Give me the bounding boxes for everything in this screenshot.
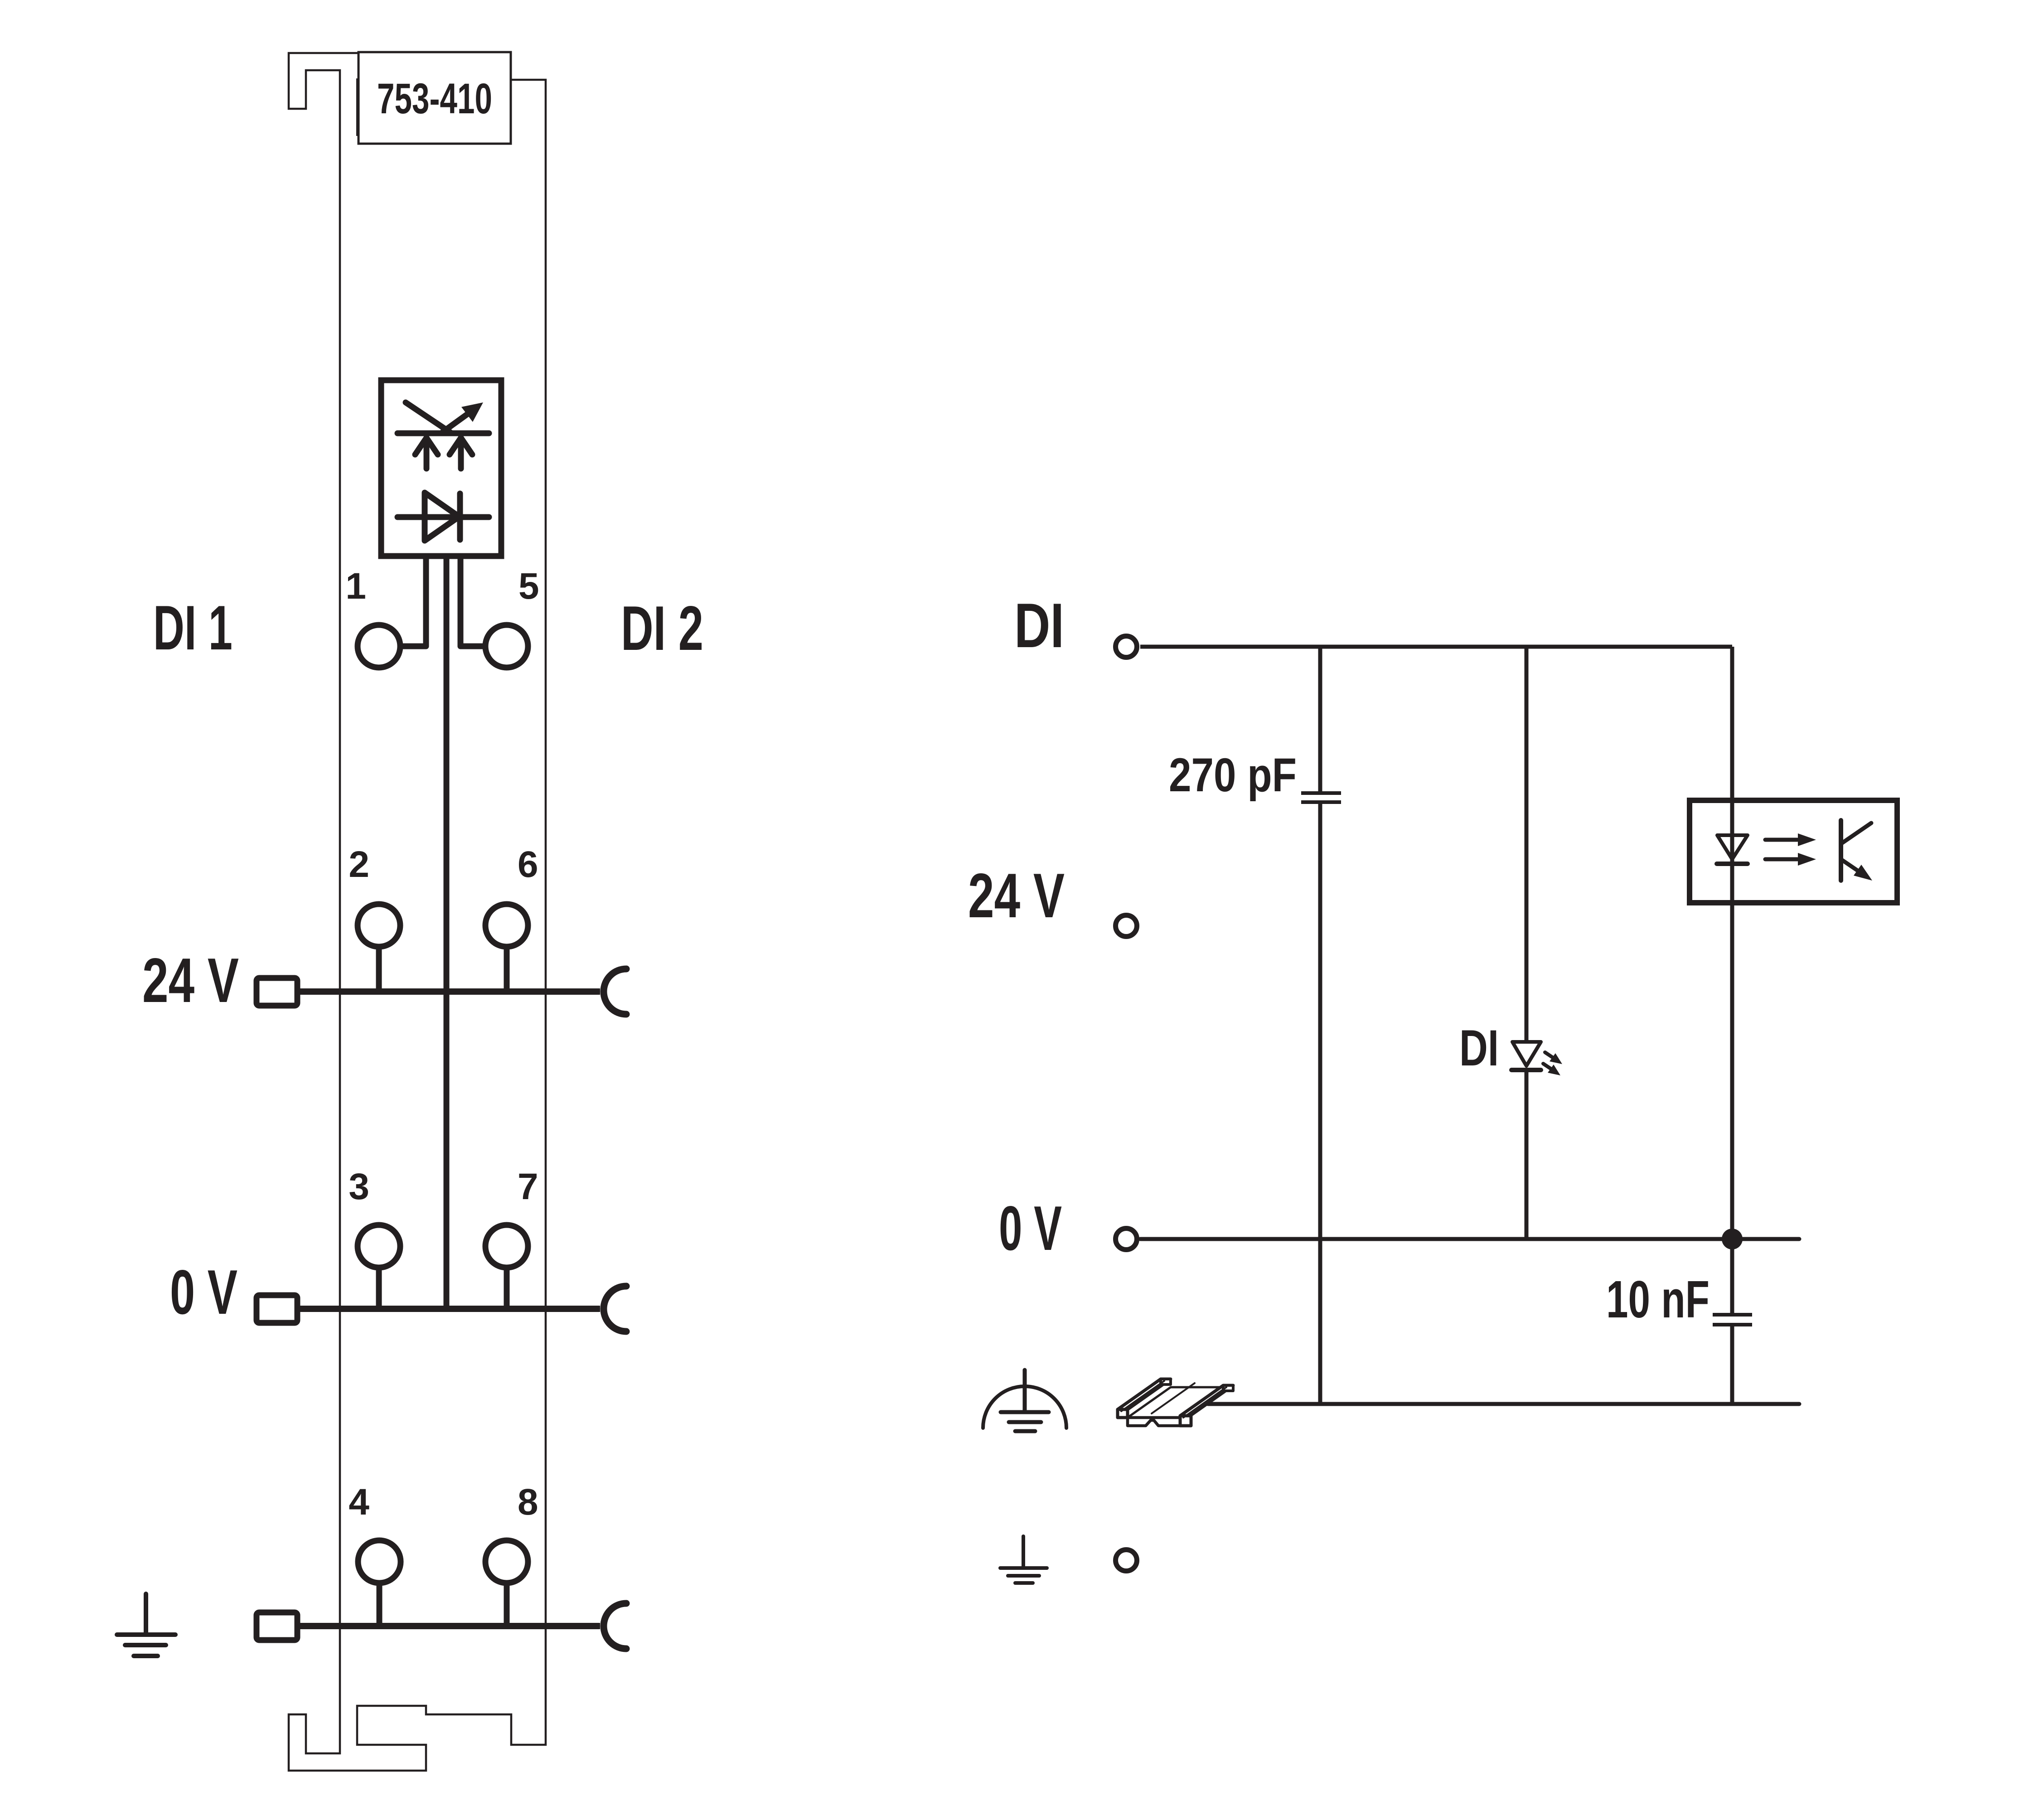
stub terminal 6 to 24V bus — [504, 947, 510, 992]
earth bus line — [300, 1623, 600, 1629]
svg-text:8: 8 — [518, 1481, 538, 1523]
stub terminal 7 to 0V bus — [504, 1268, 510, 1309]
LED DI — [1512, 1042, 1541, 1066]
svg-text:5: 5 — [518, 566, 539, 607]
stub terminal 2 to 24V bus — [376, 947, 382, 992]
optocoupler phototransistor — [1839, 820, 1843, 881]
protective earth ground symbol — [1022, 1536, 1025, 1568]
svg-text:24 V: 24 V — [968, 861, 1065, 931]
terminal DI — [1116, 636, 1137, 658]
LED light arrow 2 — [1543, 1064, 1553, 1070]
24V clamp square — [257, 978, 297, 1006]
terminal 1 — [358, 625, 400, 668]
module 753-410 body outline — [289, 53, 546, 1771]
svg-text:10 nF: 10 nF — [1606, 1270, 1710, 1329]
wire optocoupler to 0V node — [1730, 903, 1734, 1239]
svg-text:0 V: 0 V — [999, 1193, 1062, 1263]
capacitor 270 pF — [1301, 791, 1341, 795]
functional earth symbol — [983, 1386, 1066, 1428]
svg-text:753-410: 753-410 — [377, 75, 492, 123]
stub terminal 8 to earth bus — [504, 1583, 510, 1626]
svg-text:DI: DI — [1014, 591, 1064, 661]
isolator up arrow 2 — [458, 440, 464, 469]
svg-text:3: 3 — [349, 1166, 369, 1207]
svg-text:7: 7 — [518, 1166, 538, 1207]
optocoupler U1 box — [1690, 800, 1897, 903]
24V bus line — [300, 988, 600, 995]
isolator bar — [397, 431, 489, 436]
module earth ground symbol — [144, 1594, 148, 1635]
wire functional earth rail — [1208, 1402, 1799, 1406]
isolator up arrow 1 — [424, 440, 430, 469]
wire box to terminal 1 — [403, 556, 426, 646]
wire DI rail to LED — [1525, 647, 1529, 1042]
terminal 0 V — [1116, 1229, 1137, 1250]
svg-text:6: 6 — [518, 844, 538, 885]
svg-text:1: 1 — [345, 566, 366, 607]
terminal 24 V — [1116, 915, 1137, 937]
LED light arrow 1 — [1545, 1052, 1555, 1059]
terminal 7 — [485, 1225, 528, 1268]
earth clamp square — [257, 1612, 297, 1640]
wire DI to C270 — [1318, 647, 1322, 791]
earth bus open contact arc — [604, 1603, 626, 1649]
terminal 4 — [358, 1540, 401, 1583]
svg-text:4: 4 — [349, 1481, 369, 1523]
wire 0 V rail — [1140, 1237, 1799, 1241]
wire LED to 0V rail — [1525, 1070, 1529, 1239]
DIN rail mounting symbol — [1118, 1379, 1233, 1426]
0V bus open contact arc — [604, 1286, 626, 1331]
label box hinge edge — [356, 78, 359, 136]
svg-text:2: 2 — [349, 844, 369, 885]
svg-text:DI 1: DI 1 — [153, 593, 232, 663]
isolator diode — [397, 514, 489, 520]
wire DI to optocoupler — [1730, 647, 1734, 800]
svg-text:DI: DI — [1459, 1020, 1499, 1076]
optocoupler LED — [1717, 835, 1748, 859]
terminal 2 — [358, 904, 400, 947]
terminal 5 — [485, 625, 528, 668]
stub terminal 3 to 0V bus — [376, 1268, 382, 1309]
isolator diagonal arrow out — [443, 411, 472, 432]
capacitor 10 nF — [1713, 1313, 1752, 1317]
wire node to C10n — [1730, 1239, 1734, 1313]
wire box to terminal 5 — [460, 556, 483, 646]
module label box — [358, 52, 511, 144]
svg-text:270 pF: 270 pF — [1169, 749, 1297, 802]
wire C10n to earth rail — [1730, 1326, 1734, 1404]
isolator diagonal in — [406, 402, 451, 433]
terminal 8 — [485, 1540, 528, 1583]
0V clamp square — [257, 1295, 297, 1323]
terminal 6 — [485, 904, 528, 947]
svg-text:24 V: 24 V — [142, 945, 239, 1016]
junction node 0V-optocoupler — [1722, 1229, 1743, 1249]
terminal 3 — [358, 1225, 400, 1268]
terminal earth — [1116, 1550, 1137, 1571]
wire center bus to 0V — [444, 556, 450, 1309]
24V bus open contact arc — [604, 969, 626, 1014]
stub terminal 4 to earth bus — [377, 1583, 383, 1626]
wire C270 to earth rail — [1318, 804, 1322, 1404]
wire through optocoupler — [1730, 800, 1734, 903]
input isolator box — [381, 380, 501, 556]
wire DI rail — [1140, 645, 1732, 649]
optocoupler light arrow 2 — [1765, 857, 1797, 862]
svg-text:0 V: 0 V — [170, 1257, 237, 1327]
0V bus line — [300, 1306, 600, 1312]
optocoupler light arrow 1 — [1765, 838, 1797, 842]
svg-text:DI 2: DI 2 — [621, 593, 703, 663]
